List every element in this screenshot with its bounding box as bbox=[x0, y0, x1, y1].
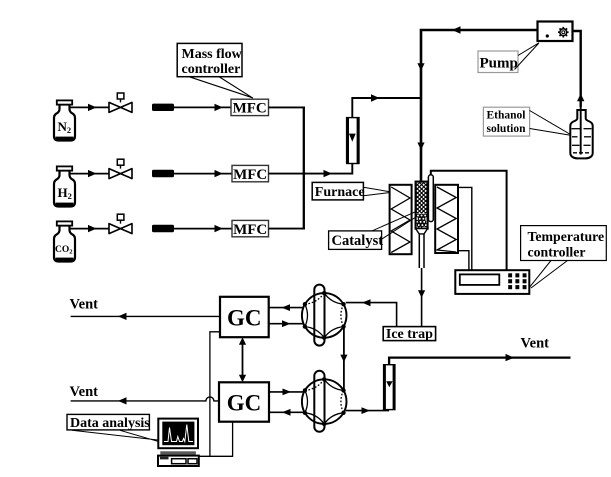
MFC3 bbox=[232, 220, 269, 237]
callout Furnace bbox=[363, 187, 389, 196]
callout Data analysis to computer bbox=[72, 430, 158, 441]
callout Mass flow controller to MFC1 bbox=[189, 77, 253, 99]
arrow left on pump line bbox=[452, 26, 461, 33]
svg-text:MFC: MFC bbox=[233, 167, 267, 183]
wire SV1 to SV2 bbox=[343, 328, 345, 390]
arrow down SV1-SV2 bbox=[340, 355, 347, 363]
svg-text:Furnace: Furnace bbox=[315, 185, 365, 200]
wire CO2 to valve bbox=[70, 228, 109, 230]
callout Temperature controller bbox=[530, 261, 568, 289]
arrow down on outlet bbox=[418, 290, 425, 298]
GC 2 bbox=[219, 382, 269, 421]
arrow on H2 line bbox=[88, 170, 97, 177]
data wire GC1 to computer bbox=[199, 332, 220, 457]
wire MFC3 to merge bbox=[269, 228, 306, 230]
gas cylinder H2 bbox=[54, 166, 75, 206]
callout Ethanol to bottle bbox=[530, 111, 571, 136]
link GC1-GC2 double arrow bbox=[239, 337, 246, 382]
wire merge to rotameter R1 bbox=[304, 164, 353, 174]
arrow on R1 top wire bbox=[371, 94, 380, 101]
computer keyboard bar bbox=[160, 451, 196, 455]
label Temperature controller bbox=[521, 226, 607, 261]
wire GC1-SV1 bottom bbox=[269, 323, 304, 325]
wire pump to ethanol bottle bbox=[573, 31, 581, 107]
GC 1 bbox=[220, 297, 269, 337]
svg-text:controller: controller bbox=[182, 62, 241, 77]
wire filter to MFC3 bbox=[174, 228, 232, 230]
catalyst tube (reactor) bbox=[416, 182, 428, 268]
wire SV2 to rotameter R2 bbox=[346, 410, 389, 412]
label Pump bbox=[478, 51, 518, 73]
rotameter R2 bbox=[384, 365, 395, 410]
svg-text:controller: controller bbox=[528, 245, 586, 260]
arrow into valve SV1 bbox=[362, 299, 371, 306]
arrow on CO2 line bbox=[88, 225, 97, 232]
svg-text:Temperature: Temperature bbox=[528, 229, 605, 244]
filter F1 bbox=[152, 104, 174, 111]
vent line 1 bbox=[71, 315, 220, 317]
computer system unit bbox=[158, 456, 199, 466]
arrow before MFC1 bbox=[215, 104, 223, 111]
label Mass flow controller bbox=[177, 43, 242, 77]
arrow into GC1 bbox=[282, 304, 291, 311]
sampling valve SV2 bbox=[302, 371, 347, 432]
heater wire B bbox=[458, 251, 469, 271]
arrow vent 3 bbox=[506, 354, 515, 361]
svg-text:Pump: Pump bbox=[480, 56, 518, 72]
label Catalyst bbox=[329, 231, 384, 250]
merge manifold line bbox=[303, 107, 305, 228]
label Ice trap bbox=[383, 327, 435, 342]
svg-text:Data analysis: Data analysis bbox=[70, 416, 150, 431]
arrow before MFC2 bbox=[215, 170, 223, 177]
gas cylinder CO2 bbox=[54, 221, 75, 261]
pump P1 bbox=[538, 22, 573, 42]
vent line 2 (hops data wire) bbox=[71, 397, 219, 401]
MFC1 bbox=[231, 99, 269, 116]
reactor outlet line to ice trap bbox=[421, 268, 423, 327]
wire MFC1 to merge bbox=[269, 106, 306, 108]
svg-text:Vent: Vent bbox=[70, 296, 99, 312]
arrow vent 2 bbox=[118, 397, 127, 404]
furnace right block bbox=[435, 185, 458, 253]
arrow up to pump bbox=[577, 94, 584, 102]
wire N2 to valve bbox=[70, 106, 109, 108]
wire GC2-SV2 bottom bbox=[269, 411, 304, 413]
rotameter R1 bbox=[347, 118, 359, 164]
callout Catalyst bbox=[372, 211, 417, 239]
wire filter to MFC2 bbox=[174, 173, 232, 175]
valve V1 bbox=[109, 93, 132, 112]
svg-text:Ethanol: Ethanol bbox=[487, 110, 526, 122]
arrow on N2 line bbox=[88, 104, 97, 111]
wire ice trap to valve SV1 bbox=[346, 303, 397, 327]
label Ethanol solution bbox=[483, 107, 529, 136]
label Furnace bbox=[312, 182, 364, 200]
gas cylinder N2 bbox=[54, 100, 75, 140]
svg-text:MFC: MFC bbox=[233, 222, 267, 238]
valve V3 bbox=[109, 214, 132, 233]
wire GC2-SV2 top bbox=[269, 391, 304, 393]
arrow down on main line (lower) bbox=[417, 143, 424, 151]
wire rotameter R1 to main line bbox=[352, 98, 421, 118]
arrow out of GC2 bbox=[283, 389, 292, 396]
computer monitor bbox=[158, 419, 198, 449]
wire filter to MFC1 bbox=[174, 106, 231, 108]
callout Pump to pump box bbox=[515, 43, 540, 70]
label Data analysis bbox=[67, 414, 150, 431]
furnace left block bbox=[390, 185, 412, 254]
dip tube into bottle bbox=[580, 107, 582, 155]
filter F2 bbox=[152, 170, 174, 177]
valve V2 bbox=[109, 159, 132, 178]
MFC2 bbox=[232, 165, 269, 182]
temperature controller unit bbox=[455, 270, 529, 294]
arrow to rotameter R1 bbox=[324, 170, 333, 177]
arrow vent 1 bbox=[118, 313, 127, 320]
arrow out of GC1 bbox=[282, 320, 291, 327]
thermocouple wire to controller bbox=[431, 171, 507, 270]
arrow before MFC3 bbox=[215, 225, 223, 232]
svg-text:MFC: MFC bbox=[233, 101, 267, 117]
wire MFC2 to merge bbox=[269, 173, 306, 175]
svg-text:Catalyst: Catalyst bbox=[332, 233, 384, 249]
wire H2 to valve bbox=[70, 173, 109, 175]
vent line 3 bbox=[389, 358, 570, 365]
heater wire A bbox=[458, 187, 472, 270]
svg-text:solution: solution bbox=[487, 123, 527, 135]
svg-text:GC: GC bbox=[227, 306, 262, 331]
svg-text:GC: GC bbox=[227, 391, 262, 416]
ethanol bottle bbox=[570, 110, 592, 158]
svg-text:Mass flow: Mass flow bbox=[182, 47, 243, 62]
arrow into GC2 bbox=[282, 409, 291, 416]
svg-text:Vent: Vent bbox=[70, 384, 99, 400]
data wire GC2 to computer bbox=[210, 422, 233, 457]
sampling valve SV1 bbox=[302, 285, 347, 346]
svg-text:Vent: Vent bbox=[521, 336, 550, 352]
arrow into R2 bbox=[362, 407, 371, 414]
arrow down on main line (upper) bbox=[417, 63, 424, 70]
wire GC1-SV1 top bbox=[269, 307, 304, 309]
main feed line (pump to furnace) bbox=[421, 30, 538, 182]
filter F3 bbox=[152, 225, 174, 232]
thermocouple bbox=[428, 175, 433, 222]
svg-text:Ice trap: Ice trap bbox=[386, 327, 433, 342]
